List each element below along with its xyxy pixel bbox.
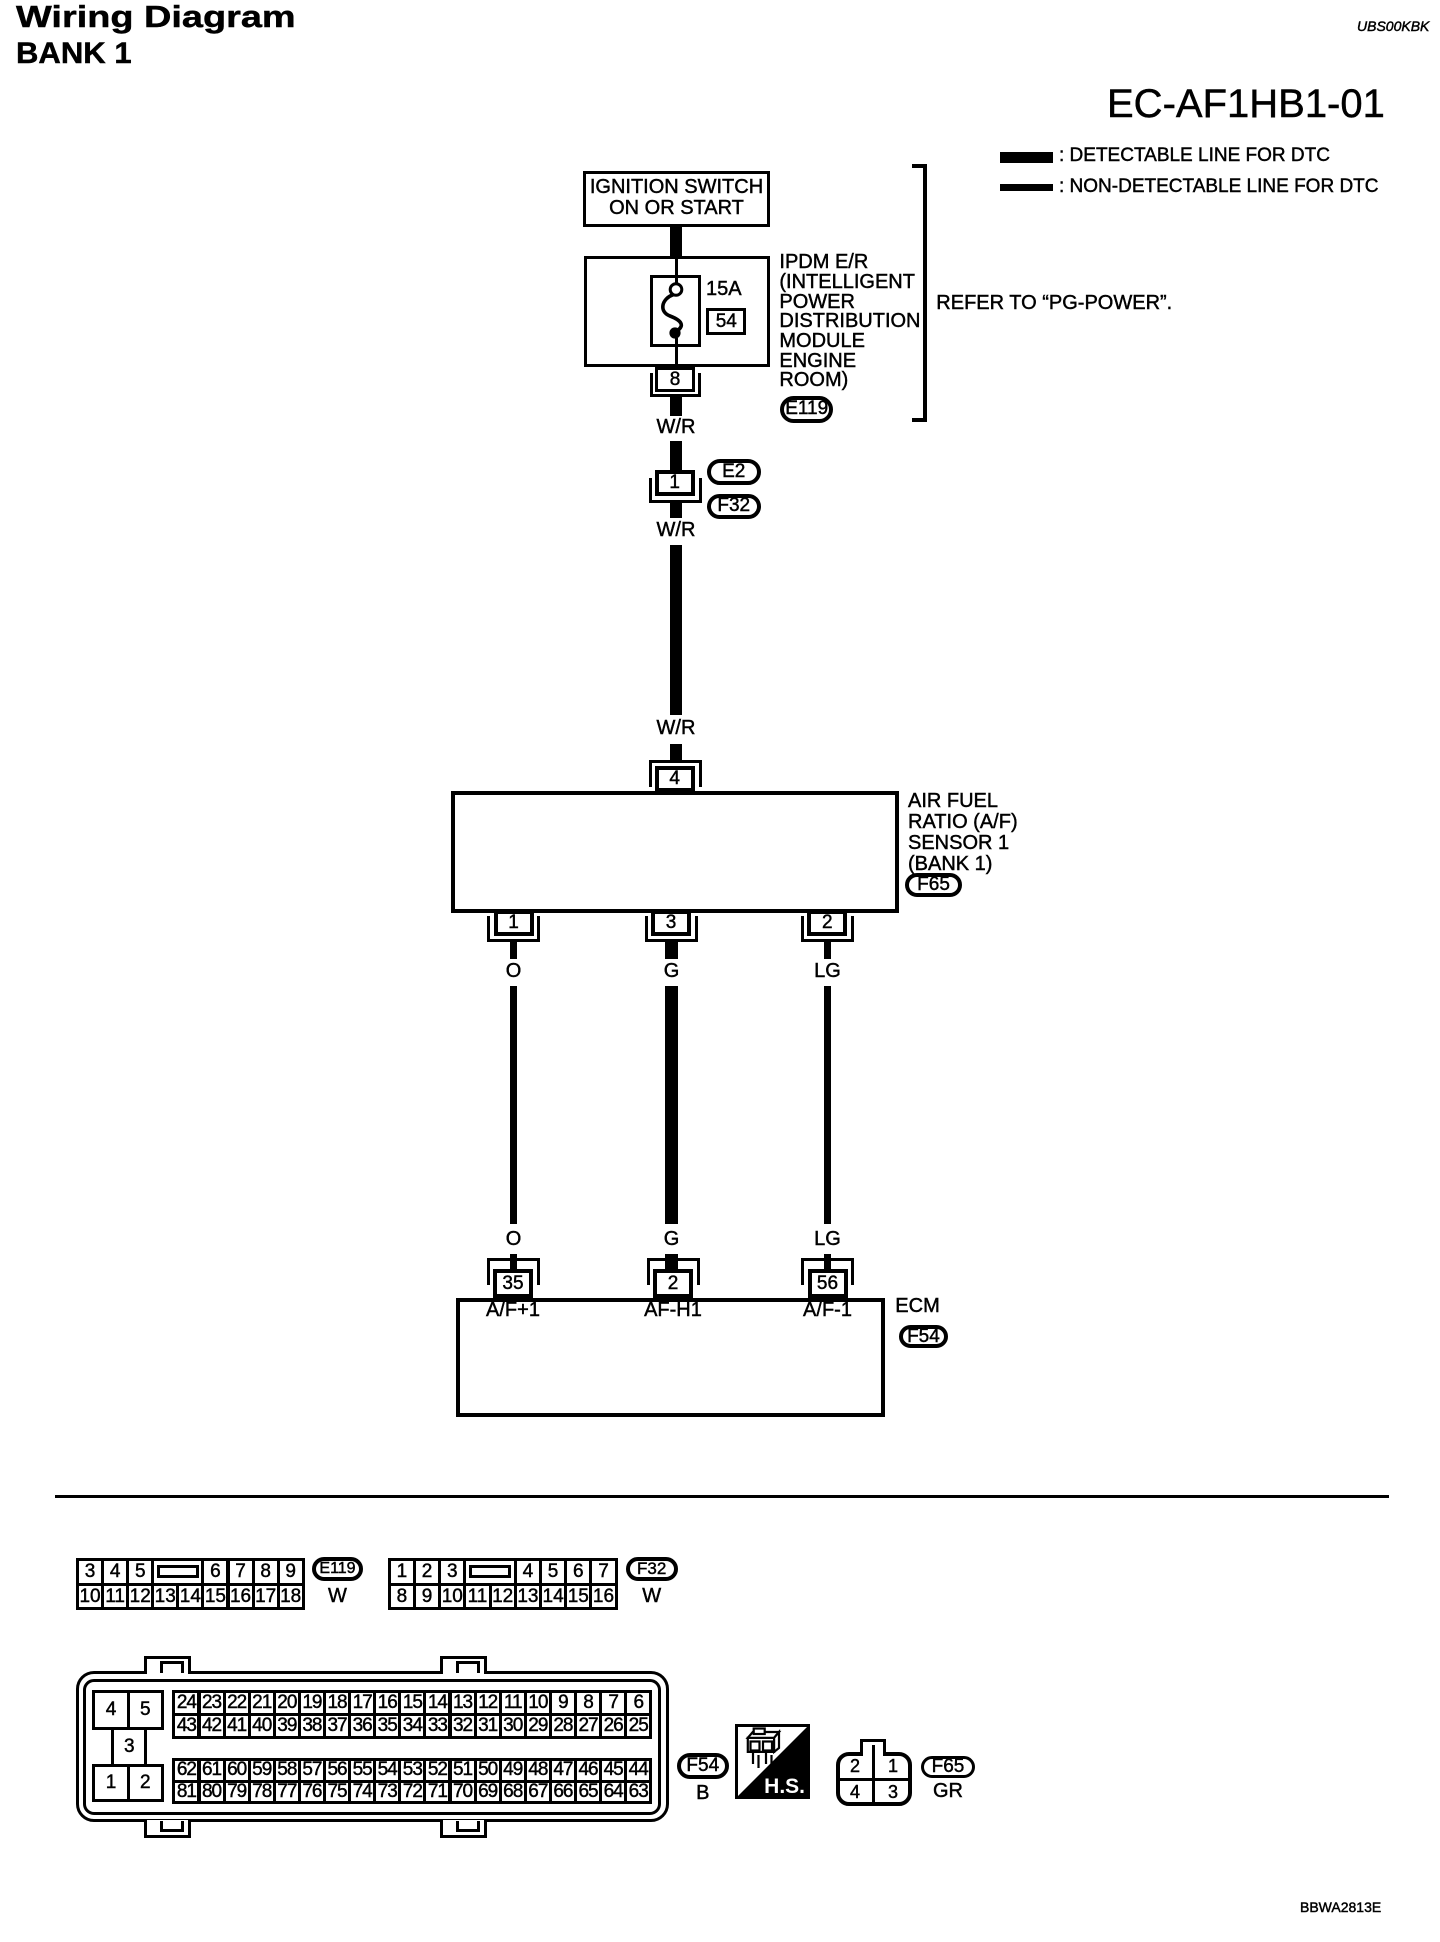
connector label F32 (view)	[626, 1557, 678, 1581]
wire O stub lower (thin)	[510, 1254, 517, 1270]
pin 2 (ECM)	[653, 1269, 693, 1298]
ECM pin name A/F+1	[453, 1300, 573, 1321]
wire W/R above connector 1 (thick)	[670, 441, 682, 470]
F54 grid upper pin 25	[624, 1713, 652, 1739]
connector E119 pin 11	[101, 1583, 129, 1611]
bracket pin 3 (sensor)	[645, 916, 698, 943]
connector label F54 (view)	[677, 1753, 729, 1779]
connector F32 pin 6	[564, 1558, 592, 1586]
wire W/R long (thick)	[670, 545, 682, 715]
F54 grid lower pin 48	[524, 1758, 552, 1783]
wire W/R below connector (thick)	[670, 503, 682, 518]
F54 grid lower pin 53	[398, 1758, 426, 1783]
connector E119 pin 3	[76, 1558, 104, 1586]
F54 grid upper pin 26	[599, 1713, 627, 1739]
F54 grid upper pin 41	[223, 1713, 251, 1739]
F54 grid lower pin 59	[248, 1758, 276, 1783]
F54 grid lower pin 75	[323, 1780, 351, 1805]
wire W/R above pin 4 (thick)	[670, 744, 682, 760]
connector F32 pin 15	[564, 1583, 592, 1611]
pin 8 (IPDM)	[655, 367, 695, 392]
connector E119 color W	[258, 1586, 418, 1607]
connector F32 pin 8	[388, 1583, 416, 1611]
splice pin 1 (E2/F32)	[655, 470, 695, 496]
air fuel ratio sensor box F65	[451, 791, 899, 913]
F54 grid upper pin 30	[499, 1713, 527, 1739]
legend thick bar DETECTABLE	[1000, 152, 1053, 163]
F54 top tab 2 outer	[440, 1656, 487, 1674]
F54 bottom tab 2 inner	[456, 1821, 480, 1833]
bracket pin 2 (sensor)	[801, 916, 854, 943]
ECM connector F54 body inner	[83, 1679, 661, 1815]
F54 grid lower pin 77	[273, 1780, 301, 1805]
wire label G lower	[592, 1229, 752, 1250]
connector E119 pin 17	[252, 1583, 280, 1611]
connector F32 pin 5	[539, 1558, 567, 1586]
F54 grid upper pin 27	[574, 1713, 602, 1739]
F54 grid lower pin 50	[474, 1758, 502, 1783]
F54 grid upper pin 33	[423, 1713, 451, 1739]
connector E119 pin 13	[151, 1583, 179, 1611]
F54 grid upper pin 7	[599, 1690, 627, 1716]
F54 grid upper pin 22	[223, 1690, 251, 1716]
F54 pin 1	[92, 1764, 129, 1803]
wire label W/R 3	[596, 718, 756, 739]
F54 grid lower pin 56	[323, 1758, 351, 1783]
F54 grid lower pin 66	[549, 1780, 577, 1805]
title Wiring Diagram	[16, 0, 296, 35]
F54 grid lower pin 69	[474, 1780, 502, 1805]
fuse number 54	[706, 312, 746, 332]
figure id BBWA2813E	[1300, 1900, 1381, 1915]
connector F32 keying slot cell	[463, 1558, 516, 1586]
F54 grid lower pin 72	[398, 1780, 426, 1805]
F54 grid upper pin 31	[474, 1713, 502, 1739]
pin 4 (sensor)	[655, 766, 695, 792]
doc code UBS00KBK	[1357, 19, 1429, 34]
connector E119 keying slot	[157, 1565, 199, 1579]
connector F32 pin 4	[514, 1558, 542, 1586]
wire W/R below pin 8 (thick)	[670, 397, 682, 416]
pin 56 (ECM)	[808, 1269, 848, 1298]
F54 grid upper pin 18	[323, 1690, 351, 1716]
wire O long (thin)	[510, 986, 517, 1224]
pin 35 (ECM)	[493, 1269, 533, 1298]
F54 grid lower pin 54	[373, 1758, 401, 1783]
F54 grid lower pin 52	[423, 1758, 451, 1783]
wire G stub (thick)	[665, 942, 678, 959]
fuse number box 54	[706, 308, 746, 335]
F54 grid lower pin 71	[423, 1780, 451, 1805]
sensor description	[908, 791, 1018, 875]
connector label F65 (diagram)	[905, 873, 961, 897]
bracket pin 1 (sensor)	[487, 916, 540, 943]
F54 grid lower pin 60	[223, 1758, 251, 1783]
wire ignition to IPDM (thick)	[670, 226, 682, 256]
connector F32 keying slot	[469, 1565, 511, 1579]
F54 grid upper pin 8	[574, 1690, 602, 1716]
F54 grid lower pin 65	[574, 1780, 602, 1805]
F54 grid upper pin 39	[273, 1713, 301, 1739]
F54 grid upper pin 35	[373, 1713, 401, 1739]
wire inside IPDM top	[675, 257, 678, 284]
ECM pin name AF-H1	[613, 1300, 733, 1321]
bracket pin 35 (ECM)	[487, 1258, 540, 1285]
connector E119 pin 10	[76, 1583, 104, 1611]
connector E119 keying slot cell	[151, 1558, 204, 1586]
connector F32 color W	[572, 1586, 732, 1607]
wire label O lower	[434, 1229, 594, 1250]
F54 grid upper pin 15	[398, 1690, 426, 1716]
ECM pin name A/F-1	[768, 1300, 888, 1321]
connector E119 pin 9	[277, 1558, 305, 1586]
reference bracket	[912, 164, 928, 422]
subtitle BANK 1	[16, 35, 132, 72]
F65 view pin 1	[878, 1757, 908, 1776]
wire LG stub (thin)	[824, 942, 831, 959]
F54 grid upper pin 42	[198, 1713, 226, 1739]
connector F32 pin 1	[388, 1558, 416, 1586]
connector F65 view body	[836, 1752, 912, 1806]
connector label E119 (diagram)	[780, 396, 833, 422]
connector F32 pin 14	[539, 1583, 567, 1611]
F54 grid upper pin 40	[248, 1713, 276, 1739]
pin 1 (sensor)	[494, 910, 534, 936]
F54 pin 2	[127, 1764, 164, 1803]
F54 grid upper pin 32	[449, 1713, 477, 1739]
F54 grid lower pin 61	[198, 1758, 226, 1783]
F54 grid lower pin 73	[373, 1780, 401, 1805]
bracket pin 1 (E2/F32)	[649, 478, 702, 503]
bracket pin 8	[650, 373, 701, 397]
F54 grid lower pin 63	[624, 1780, 652, 1805]
F65 view pin 4	[840, 1783, 870, 1802]
connector F32 pin 16	[589, 1583, 617, 1611]
F54 grid lower pin 78	[248, 1780, 276, 1805]
wire LG stub lower (thin)	[824, 1254, 831, 1270]
legend thin bar NON-DETECTABLE	[1000, 184, 1053, 191]
F54 grid upper pin 6	[624, 1690, 652, 1716]
connector E119 pin 15	[201, 1583, 229, 1611]
legend text detectable	[1059, 146, 1330, 166]
F54 bottom tab 1 inner	[160, 1821, 184, 1833]
wire G stub lower (thick)	[665, 1254, 678, 1270]
connector F54 color B	[623, 1783, 783, 1804]
H.S. (harness side) symbol	[735, 1724, 810, 1799]
connector label F54 (diagram)	[899, 1325, 947, 1348]
F54 grid lower pin 55	[348, 1758, 376, 1783]
divider line	[55, 1495, 1389, 1498]
connector F65 color GR	[868, 1781, 1028, 1802]
wire label W/R 1	[596, 417, 756, 438]
connector F65 view tab	[860, 1739, 886, 1756]
F54 grid upper pin 12	[474, 1690, 502, 1716]
F54 grid lower pin 80	[198, 1780, 226, 1805]
sheet id EC-AF1HB1-01	[1107, 83, 1385, 125]
F54 grid lower pin 70	[449, 1780, 477, 1805]
connector label E2	[707, 459, 761, 485]
connector E119 pin 5	[126, 1558, 154, 1586]
F54 grid upper pin 9	[549, 1690, 577, 1716]
F54 grid upper pin 24	[172, 1690, 200, 1716]
F54 bottom tab 1 outer	[144, 1820, 191, 1838]
bracket pin 4 (sensor)	[649, 760, 702, 787]
F54 grid lower pin 76	[298, 1780, 326, 1805]
F54 grid lower pin 46	[574, 1758, 602, 1783]
legend text non-detectable	[1059, 177, 1379, 197]
F54 grid lower pin 79	[223, 1780, 251, 1805]
F54 grid lower pin 67	[524, 1780, 552, 1805]
connector label E119 (view)	[312, 1557, 363, 1581]
connector E119 pin 6	[201, 1558, 229, 1586]
wire label G upper	[592, 961, 752, 982]
F54 bottom tab 2 outer	[440, 1820, 487, 1838]
F54 grid upper pin 43	[172, 1713, 200, 1739]
F54 grid upper pin 29	[524, 1713, 552, 1739]
F54 top tab 1 outer	[144, 1656, 191, 1674]
IPDM E/R description	[779, 253, 920, 391]
connector F32 pin 7	[589, 1558, 617, 1586]
F54 grid upper pin 23	[198, 1690, 226, 1716]
F54 grid lower pin 62	[172, 1758, 200, 1783]
F54 grid upper pin 28	[549, 1713, 577, 1739]
wire label W/R 2	[596, 520, 756, 541]
F54 top tab 2 inner	[456, 1661, 480, 1673]
connector F32 pin 2	[413, 1558, 441, 1586]
connector E119 pin 18	[277, 1583, 305, 1611]
pin 2 (sensor)	[807, 910, 847, 936]
F54 grid upper pin 10	[524, 1690, 552, 1716]
F54 grid upper pin 20	[273, 1690, 301, 1716]
F54 grid lower pin 45	[599, 1758, 627, 1783]
F54 grid upper pin 21	[248, 1690, 276, 1716]
connector F65 view divider horizontal	[838, 1778, 910, 1781]
connector label F32 (diagram)	[707, 494, 761, 519]
F54 grid lower pin 57	[298, 1758, 326, 1783]
F54 grid upper pin 37	[323, 1713, 351, 1739]
wire label LG lower	[748, 1229, 908, 1250]
F54 grid lower pin 68	[499, 1780, 527, 1805]
F54 grid upper pin 38	[298, 1713, 326, 1739]
ignition switch box	[583, 171, 770, 227]
bracket pin 56 (ECM)	[801, 1258, 854, 1285]
connector F32 pin 3	[438, 1558, 466, 1586]
connector E119 pin 14	[176, 1583, 204, 1611]
connector F65 view divider vertical	[872, 1745, 875, 1805]
ignition switch label	[587, 177, 767, 219]
F54 grid upper pin 11	[499, 1690, 527, 1716]
F54 grid lower pin 51	[449, 1758, 477, 1783]
bracket pin 2 (ECM)	[647, 1258, 700, 1285]
fuse box outline	[650, 275, 701, 348]
note REFER TO PG-POWER	[936, 293, 1172, 314]
F54 grid upper pin 14	[423, 1690, 451, 1716]
pin 3 (sensor)	[651, 910, 691, 936]
ECM box F54	[456, 1298, 885, 1417]
F54 pin 3	[111, 1727, 147, 1767]
IPDM E/R box E119	[584, 256, 769, 367]
wire label LG upper	[748, 961, 908, 982]
F54 grid lower pin 49	[499, 1758, 527, 1783]
F54 grid upper pin 36	[348, 1713, 376, 1739]
F54 top tab 1 inner	[160, 1661, 184, 1673]
connector E119 pin 7	[227, 1558, 255, 1586]
wire label O upper	[434, 961, 594, 982]
F54 grid upper pin 13	[449, 1690, 477, 1716]
wire G long (thick)	[665, 986, 678, 1224]
connector E119 pin 16	[227, 1583, 255, 1611]
F54 grid upper pin 16	[373, 1690, 401, 1716]
F54 grid lower pin 81	[172, 1780, 200, 1805]
connector E119 pin 4	[101, 1558, 129, 1586]
wire O stub (thin)	[510, 942, 517, 959]
connector F32 pin 10	[438, 1583, 466, 1611]
connector E119 pin 8	[252, 1558, 280, 1586]
F54 pin 5	[127, 1690, 164, 1730]
F54 grid lower pin 74	[348, 1780, 376, 1805]
connector E119 pin 12	[126, 1583, 154, 1611]
F54 grid lower pin 64	[599, 1780, 627, 1805]
F54 pin 4	[92, 1690, 129, 1730]
F54 grid lower pin 47	[549, 1758, 577, 1783]
F65 view pin 2	[840, 1757, 870, 1776]
connector F32 pin 11	[463, 1583, 491, 1611]
svg-text:H.S.: H.S.	[764, 1775, 805, 1798]
F54 grid lower pin 58	[273, 1758, 301, 1783]
F54 grid upper pin 17	[348, 1690, 376, 1716]
connector label F65 (view)	[921, 1756, 974, 1778]
F54 grid upper pin 19	[298, 1690, 326, 1716]
wire LG long (thin)	[824, 986, 831, 1224]
F54 grid upper pin 34	[398, 1713, 426, 1739]
ECM label	[895, 1296, 939, 1317]
connector F32 pin 13	[514, 1583, 542, 1611]
ECM connector F54 body outer	[76, 1671, 669, 1822]
connector F32 pin 12	[489, 1583, 517, 1611]
fuse rating 15A	[706, 279, 742, 300]
fuse 15A (symbol)	[650, 275, 701, 348]
F54 grid lower pin 44	[624, 1758, 652, 1783]
connector F32 pin 9	[413, 1583, 441, 1611]
wire inside IPDM bottom	[675, 338, 678, 368]
F65 view pin 3	[878, 1783, 908, 1802]
